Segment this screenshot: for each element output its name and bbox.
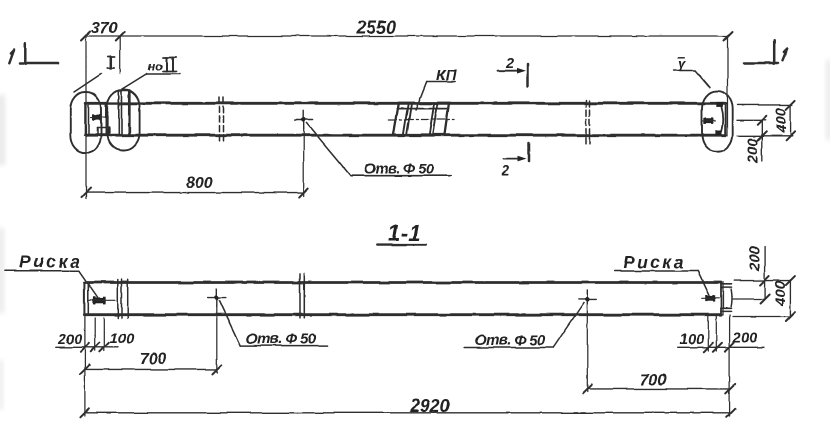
svg-text:700: 700 xyxy=(140,351,167,368)
svg-text:200: 200 xyxy=(732,331,757,347)
svg-text:370: 370 xyxy=(91,20,118,37)
svg-text:2920: 2920 xyxy=(409,396,450,416)
svg-text:200: 200 xyxy=(746,245,763,272)
svg-text:200: 200 xyxy=(57,332,82,348)
svg-text:400: 400 xyxy=(773,107,790,134)
svg-text:Отв. Ф 50: Отв. Ф 50 xyxy=(475,332,546,349)
svg-text:100: 100 xyxy=(110,331,134,347)
svg-text:2: 2 xyxy=(505,56,514,72)
svg-text:200: 200 xyxy=(745,137,762,164)
svg-text:1-1: 1-1 xyxy=(388,221,422,246)
svg-text:КП: КП xyxy=(436,67,457,84)
svg-text:800: 800 xyxy=(186,175,213,192)
svg-text:Риска: Риска xyxy=(19,252,82,272)
svg-text:Риска: Риска xyxy=(623,252,686,272)
svg-text:2550: 2550 xyxy=(355,18,396,38)
svg-text:100: 100 xyxy=(680,332,704,348)
svg-text:700: 700 xyxy=(640,372,667,389)
svg-text:2: 2 xyxy=(500,163,509,179)
svg-text:Отв. Ф 50: Отв. Ф 50 xyxy=(246,331,317,348)
svg-text:Отв. Ф 50: Отв. Ф 50 xyxy=(364,161,435,178)
svg-text:но: но xyxy=(148,59,163,73)
svg-text:400: 400 xyxy=(772,280,789,307)
